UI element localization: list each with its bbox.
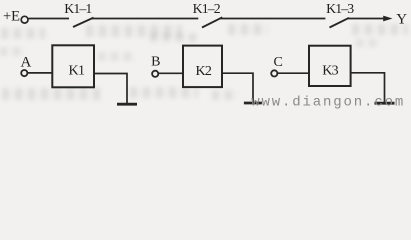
svg-text:+E: +E — [3, 9, 20, 25]
svg-text:K3: K3 — [322, 64, 338, 79]
ground (K1) — [117, 103, 137, 106]
wire: A to coil K1 — [28, 72, 52, 74]
svg-text:K1–1: K1–1 — [64, 1, 92, 16]
svg-text:A: A — [20, 55, 31, 71]
ground (K3) — [375, 102, 395, 105]
relay coil K3 (box) — [309, 46, 351, 86]
wire: coil K2 to ground — [222, 73, 253, 102]
svg-text:K1–2: K1–2 — [193, 1, 221, 16]
wire: contact K1-1 to contact K1-2 — [92, 18, 199, 20]
wire: contact K1-3 to output arrow — [348, 18, 385, 20]
terminal B (open circle) — [152, 71, 158, 77]
svg-text:www.diangon.com: www.diangon.com — [251, 94, 405, 110]
terminal C (open circle) — [271, 70, 277, 76]
contact K1-2 (NO blade) — [202, 17, 222, 27]
contact K1-3 (NO blade) — [330, 18, 350, 28]
svg-text:B: B — [151, 54, 160, 69]
terminal +E (open circle) — [21, 16, 28, 23]
wire: C to coil K3 — [278, 72, 309, 74]
svg-text:C: C — [274, 55, 283, 70]
wire: coil K1 to ground — [94, 74, 127, 104]
wire: B to coil K2 — [159, 72, 183, 74]
svg-text:K2: K2 — [195, 64, 211, 79]
terminal A (open circle) — [21, 70, 27, 76]
svg-text:K1: K1 — [69, 64, 85, 79]
svg-text:Y: Y — [396, 12, 407, 28]
wire: coil K3 to ground — [351, 73, 385, 102]
faint scan bleed-through texture — [1, 28, 45, 39]
svg-text:K1–3: K1–3 — [326, 1, 354, 16]
wire: contact K1-2 to contact K1-3 — [220, 18, 325, 20]
ground (K2) — [244, 102, 262, 105]
contact K1-1 (NO blade) — [73, 18, 94, 27]
wire: +E terminal to contact K1-1 — [28, 18, 69, 20]
arrowhead to node Y — [383, 16, 392, 22]
relay coil K2 (box) — [183, 46, 222, 88]
relay coil K1 (box) — [52, 45, 94, 87]
